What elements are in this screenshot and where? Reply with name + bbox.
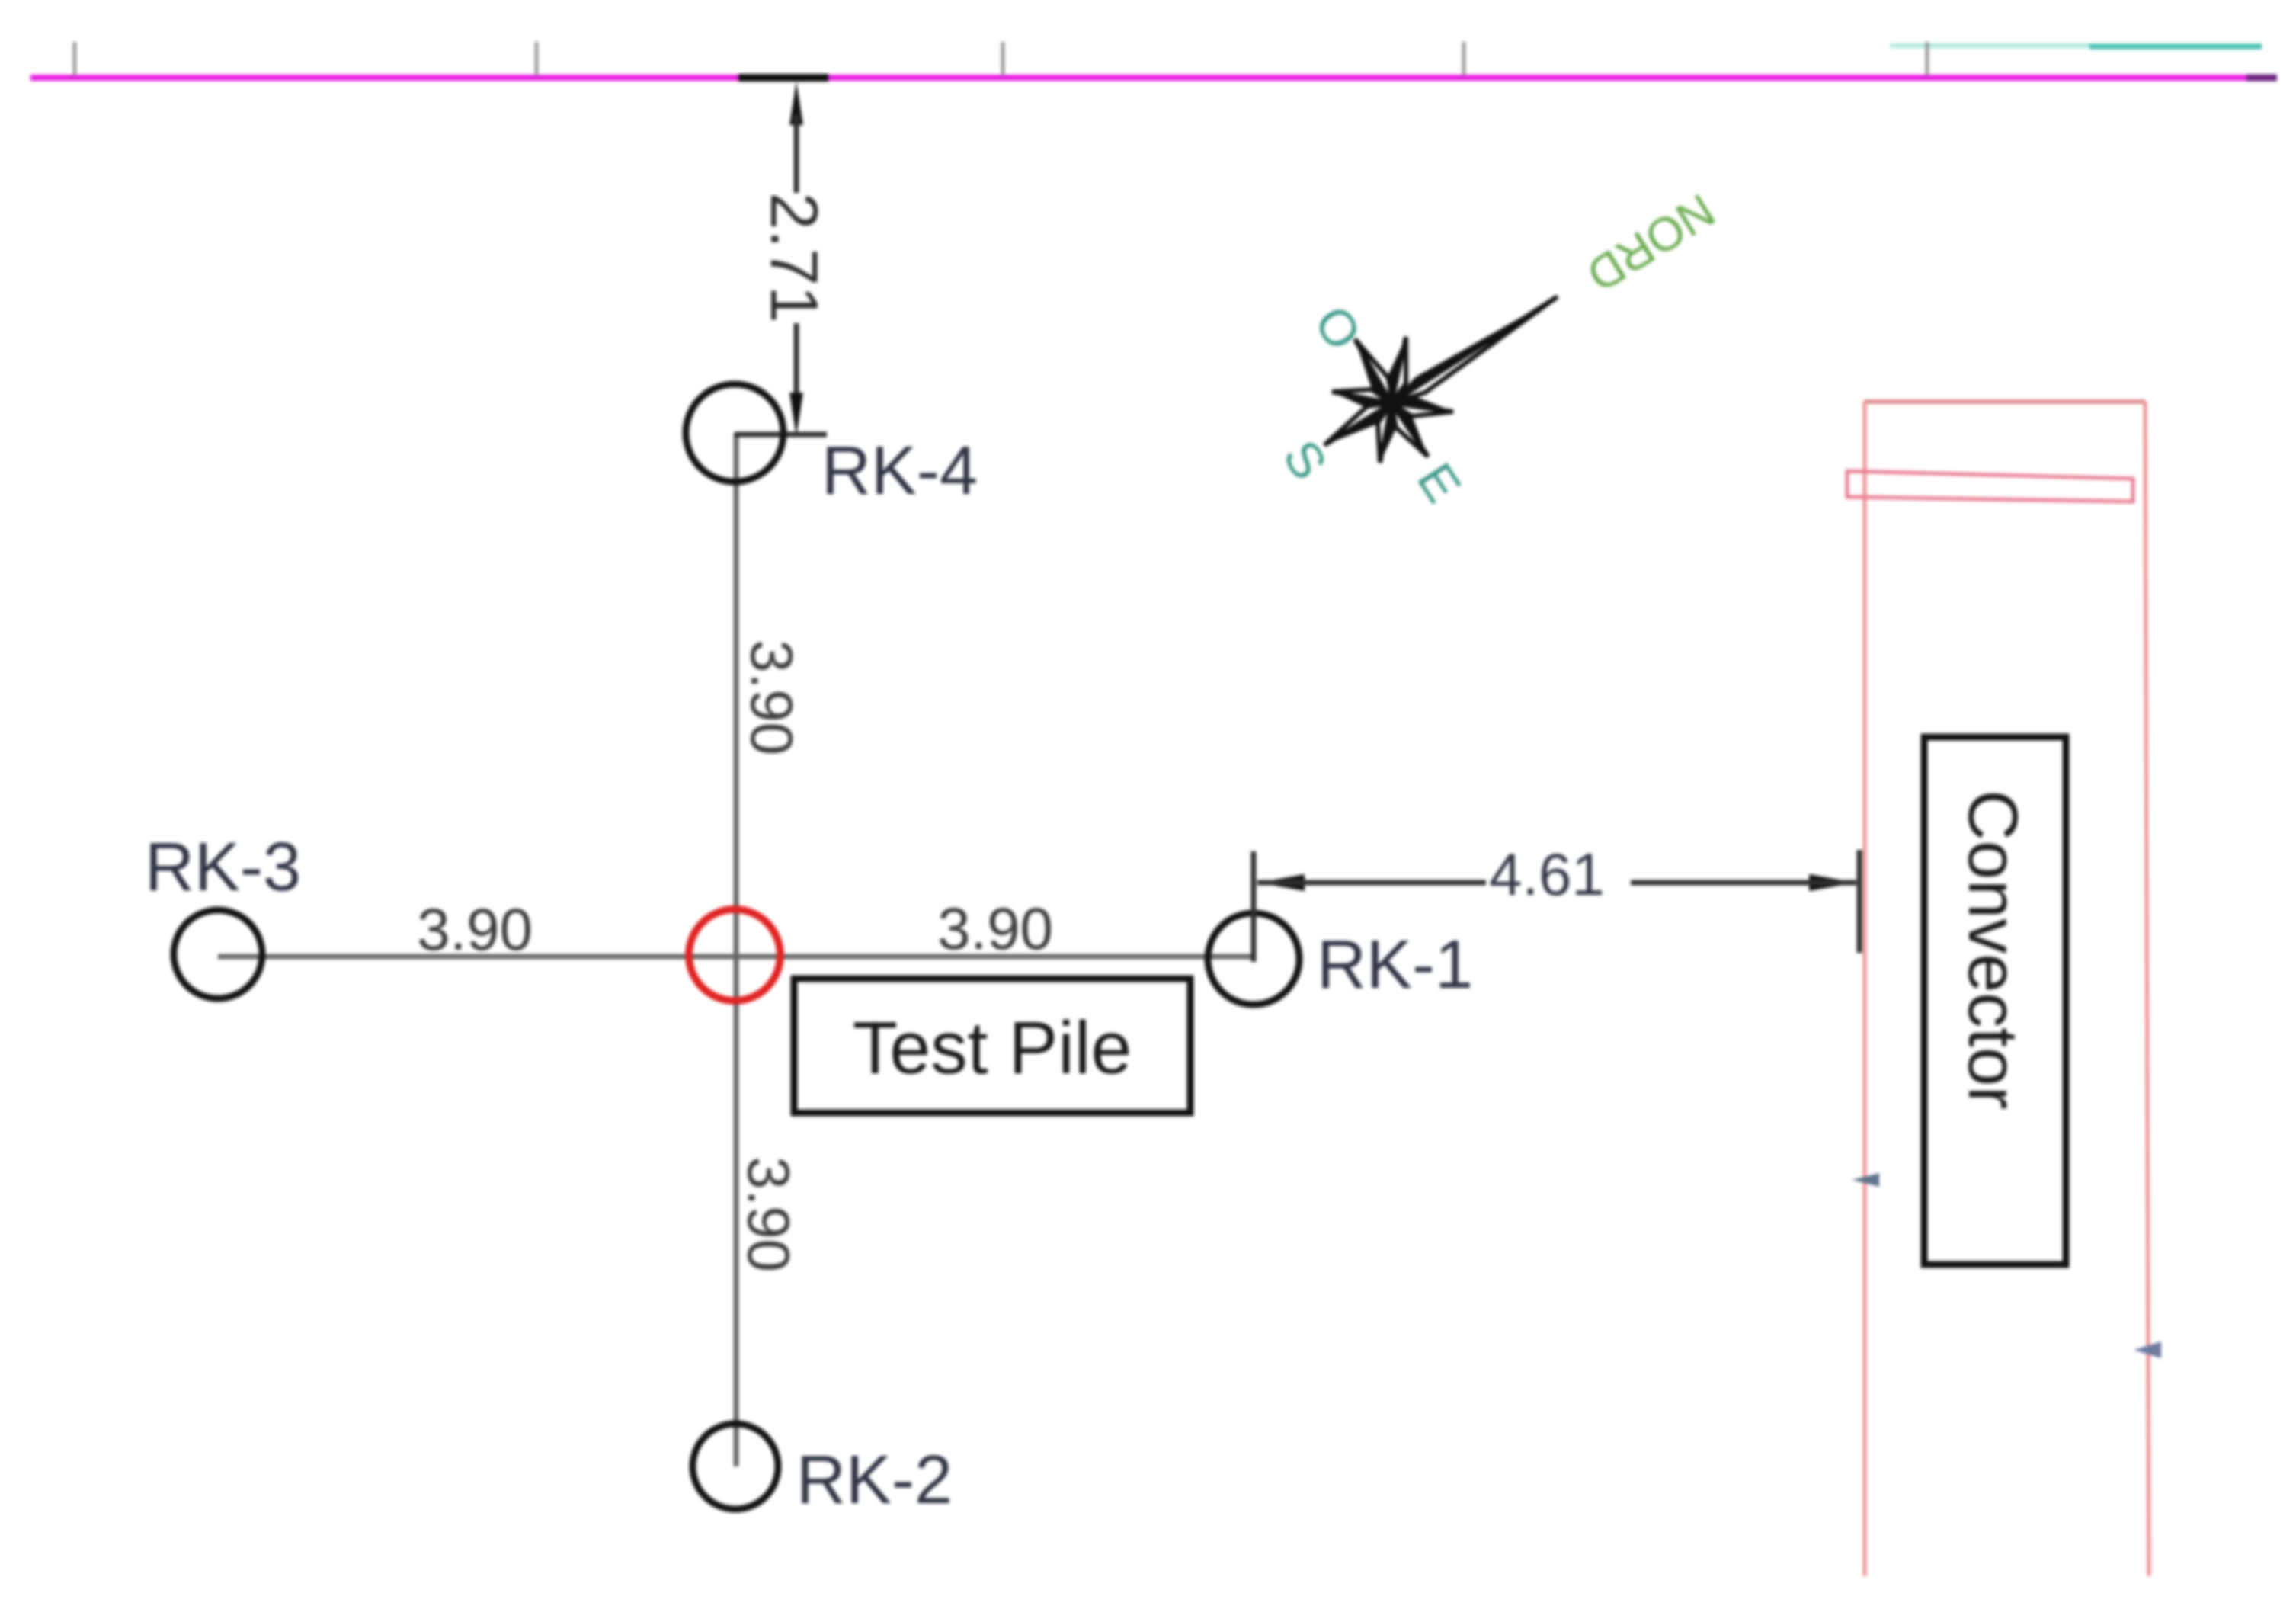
svg-text:3.90: 3.90	[735, 1156, 802, 1272]
wall line (magenta)	[30, 75, 2277, 81]
Test Pile box	[794, 979, 1190, 1113]
survey line vertical (RK-4 to RK-2)	[734, 433, 739, 1466]
dimension 4.61 (RK-1 to convector wall)	[1254, 841, 1859, 962]
svg-text:RK-2: RK-2	[796, 1442, 953, 1518]
needle (north)	[1391, 296, 1558, 403]
svg-text:3.90: 3.90	[937, 895, 1053, 962]
leader line RK-4	[735, 432, 827, 438]
svg-text:2.71: 2.71	[757, 192, 832, 322]
svg-text:Test Pile: Test Pile	[853, 1006, 1132, 1089]
svg-text:RK-1: RK-1	[1317, 927, 1473, 1003]
compass rose star	[1324, 296, 1558, 463]
survey tick marks	[75, 42, 1927, 75]
svg-text:Convector: Convector	[1954, 790, 2032, 1109]
borehole circle RK-4	[686, 384, 783, 482]
window beam (pink)	[1847, 471, 2133, 502]
borehole circle RK-3	[174, 910, 262, 998]
building outline (pink) top edge	[1865, 400, 2145, 404]
survey line horizontal (RK-3 to RK-1)	[218, 954, 1254, 960]
building outline (pink) right wall	[2145, 402, 2149, 1576]
svg-text:3.90: 3.90	[417, 896, 533, 963]
building outline (pink) left wall	[1863, 402, 1867, 1576]
flow marker left (blue)	[1852, 1173, 1879, 1187]
test pile circle (red)	[689, 909, 780, 1001]
svg-text:3.90: 3.90	[738, 639, 805, 755]
roof line (teal)	[1890, 46, 2262, 46]
svg-text:4.61: 4.61	[1489, 841, 1605, 908]
borehole circle RK-1	[1208, 913, 1299, 1005]
Convector box	[1924, 737, 2066, 1264]
borehole circle RK-2	[693, 1424, 778, 1509]
svg-text:RK-3: RK-3	[145, 829, 301, 905]
svg-text:RK-4: RK-4	[821, 433, 978, 509]
dimension 2.71 (wall to RK-4)	[738, 74, 832, 436]
flow marker right (blue)	[2134, 1341, 2161, 1358]
